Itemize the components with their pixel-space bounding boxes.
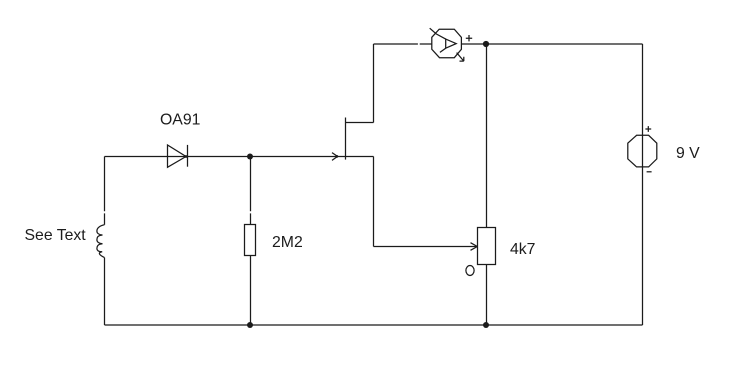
svg-text:4k7: 4k7 <box>510 241 535 258</box>
potentiometer RV1 body <box>478 228 496 265</box>
wire left vertical lower <box>104 258 106 325</box>
wire left vertical upper <box>104 157 106 225</box>
wire right vertical <box>642 44 644 325</box>
svg-text:OA91: OA91 <box>160 111 201 128</box>
meter M1 needle upper <box>430 28 446 39</box>
battery B1 wire through <box>642 135 644 167</box>
wire source vertical <box>373 157 375 247</box>
node junction gate-2M2 <box>247 154 253 160</box>
diode D1 apex dot <box>185 155 188 158</box>
wire pot branch top <box>486 44 488 228</box>
diode D1 OA91 triangle <box>168 145 187 167</box>
meter M1 needle lower <box>440 48 446 52</box>
wire pot branch bottom <box>486 265 488 326</box>
battery B1 plus sign <box>645 126 651 132</box>
node junction bottom-2M2 <box>247 322 253 328</box>
battery B1 octagon body <box>628 135 657 167</box>
wire top horizontal to meter <box>374 43 432 45</box>
transistor Q1 drain lead <box>346 122 374 124</box>
potentiometer RV1 wiper arrow <box>471 243 478 251</box>
wire wiper horizontal <box>374 246 478 248</box>
node junction bottom-pot <box>483 322 489 328</box>
meter M1 plus sign <box>466 35 472 41</box>
battery B1 minus sign <box>647 171 652 173</box>
node junction meter-pot <box>483 41 489 47</box>
wire 2M2 branch bottom <box>250 256 252 326</box>
transistor Q1 gate arrow dot <box>335 155 338 158</box>
transistor Q1 channel bar <box>345 118 347 160</box>
meter M1 pointer triangle <box>446 39 457 48</box>
meter M1 needle exit arrow <box>457 53 464 62</box>
resistor R1 2M2 body <box>245 225 256 256</box>
meter M1 octagon body <box>432 29 462 58</box>
inductor L1 (See Text coil) <box>97 225 105 258</box>
wire bottom horizontal <box>105 324 643 326</box>
wire gate row horizontal <box>105 156 374 158</box>
transistor Q1 gate arrow <box>332 153 338 161</box>
wire 2M2 branch top <box>250 157 252 225</box>
svg-text:See Text: See Text <box>25 227 87 244</box>
diode D1 cathode bar <box>187 145 189 167</box>
svg-text:9 V: 9 V <box>676 145 700 162</box>
potentiometer RV1 O marker <box>466 266 474 276</box>
svg-text:2M2: 2M2 <box>272 234 303 251</box>
wire drain vertical <box>373 44 375 123</box>
wire meter to junction <box>461 43 642 45</box>
